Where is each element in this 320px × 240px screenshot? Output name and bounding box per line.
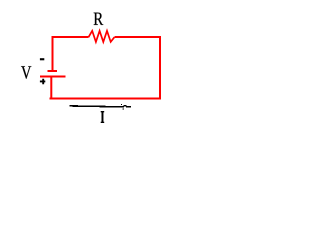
wire: top wire left segment from battery corner to resistor xyxy=(52,36,89,38)
wire: top wire right segment from resistor to top-right corner xyxy=(114,36,161,38)
current arrow I head xyxy=(121,104,131,110)
label I xyxy=(101,111,105,123)
resistor R xyxy=(89,31,115,42)
battery plus polarity mark xyxy=(40,79,45,85)
wire: bottom wire xyxy=(50,98,162,100)
battery V negative plate (short) xyxy=(48,70,58,72)
battery V positive plate (long) xyxy=(40,75,66,77)
current arrow I shaft xyxy=(70,106,125,107)
label V xyxy=(21,66,31,79)
wire: left vertical from top wire down to battery negative plate xyxy=(52,36,54,71)
label R xyxy=(94,13,104,25)
battery minus polarity mark xyxy=(40,58,44,60)
wire: right vertical wire xyxy=(159,36,161,100)
wire: left vertical from battery positive plate down to bottom wire xyxy=(50,76,52,99)
